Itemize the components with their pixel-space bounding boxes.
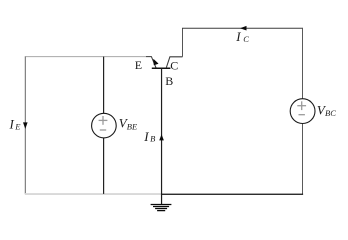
wire V_BE branch lower vertical — [103, 138, 105, 194]
svg-text:E: E — [14, 122, 21, 132]
wire left vertical — [24, 57, 26, 194]
label I_E — [9, 117, 22, 132]
V_BC minus sign — [299, 114, 305, 116]
current arrow I_E — [23, 122, 28, 128]
svg-text:I: I — [235, 29, 241, 44]
svg-text:BE: BE — [127, 121, 138, 131]
transistor Q1 emitter arrow (PNP, pointing into base) — [154, 60, 158, 65]
V_BC plus sign — [297, 101, 306, 110]
wire right vertical upper — [302, 28, 304, 99]
V_BE plus sign — [99, 116, 108, 125]
label I_B — [143, 129, 155, 144]
label I_C — [235, 29, 249, 44]
svg-text:E: E — [135, 58, 142, 72]
label B — [165, 74, 173, 88]
V_BE minus sign — [100, 129, 106, 131]
wire top horizontal (collector rail) — [182, 27, 303, 29]
ground — [151, 205, 172, 211]
wire bottom-left horizontal — [25, 193, 162, 195]
label C — [170, 58, 178, 72]
label V_BC — [317, 102, 336, 118]
voltage source V_BE circle — [92, 113, 117, 138]
wire top-left horizontal (emitter rail) — [25, 56, 146, 58]
transistor Q1 base bar — [152, 67, 171, 69]
svg-text:C: C — [243, 34, 249, 44]
label V_BE — [119, 116, 138, 132]
ground stem — [161, 194, 163, 204]
svg-text:C: C — [170, 58, 178, 72]
transistor Q1 collector lead — [166, 57, 182, 68]
svg-text:I: I — [143, 129, 149, 144]
current arrow I_C — [240, 26, 247, 31]
svg-text:BC: BC — [325, 108, 336, 118]
current arrow I_B — [159, 134, 164, 140]
svg-text:I: I — [9, 117, 15, 132]
voltage source V_BC circle — [290, 99, 315, 124]
wire V_BE branch upper vertical — [103, 57, 105, 114]
label E — [135, 58, 142, 72]
wire bottom-right horizontal — [161, 193, 303, 195]
wire base vertical — [161, 68, 163, 194]
svg-text:B: B — [150, 134, 155, 144]
transistor Q1 emitter lead — [146, 57, 156, 68]
svg-text:B: B — [165, 74, 173, 88]
wire right vertical lower — [302, 124, 304, 195]
wire collector vertical riser — [182, 28, 184, 57]
